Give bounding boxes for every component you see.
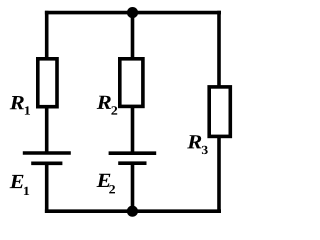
resistor R2: [120, 59, 143, 107]
wire right branch upper: [217, 11, 221, 87]
battery E1 short plate: [31, 162, 62, 166]
wire left branch lower: [45, 163, 49, 213]
wire left branch middle: [45, 107, 49, 153]
resistor R1: [38, 59, 57, 107]
wire left branch upper: [45, 11, 49, 59]
battery E2 long plate: [109, 151, 157, 155]
wire bottom horizontal: [45, 209, 221, 213]
battery E2 short plate: [118, 161, 146, 165]
wire middle branch lower: [131, 163, 135, 213]
resistor R3: [209, 87, 230, 136]
label R2: [97, 96, 118, 115]
wire right branch lower: [217, 136, 221, 213]
label R3: [187, 135, 208, 154]
junction node bottom: [127, 206, 138, 217]
label E2: [96, 174, 114, 194]
label R1: [10, 96, 30, 115]
battery E1 long plate: [23, 151, 71, 155]
wire middle branch upper: [131, 13, 135, 59]
wire middle branch middle: [131, 106, 135, 153]
label E1: [10, 175, 30, 195]
wire top horizontal: [45, 11, 221, 15]
junction node top: [127, 7, 138, 18]
